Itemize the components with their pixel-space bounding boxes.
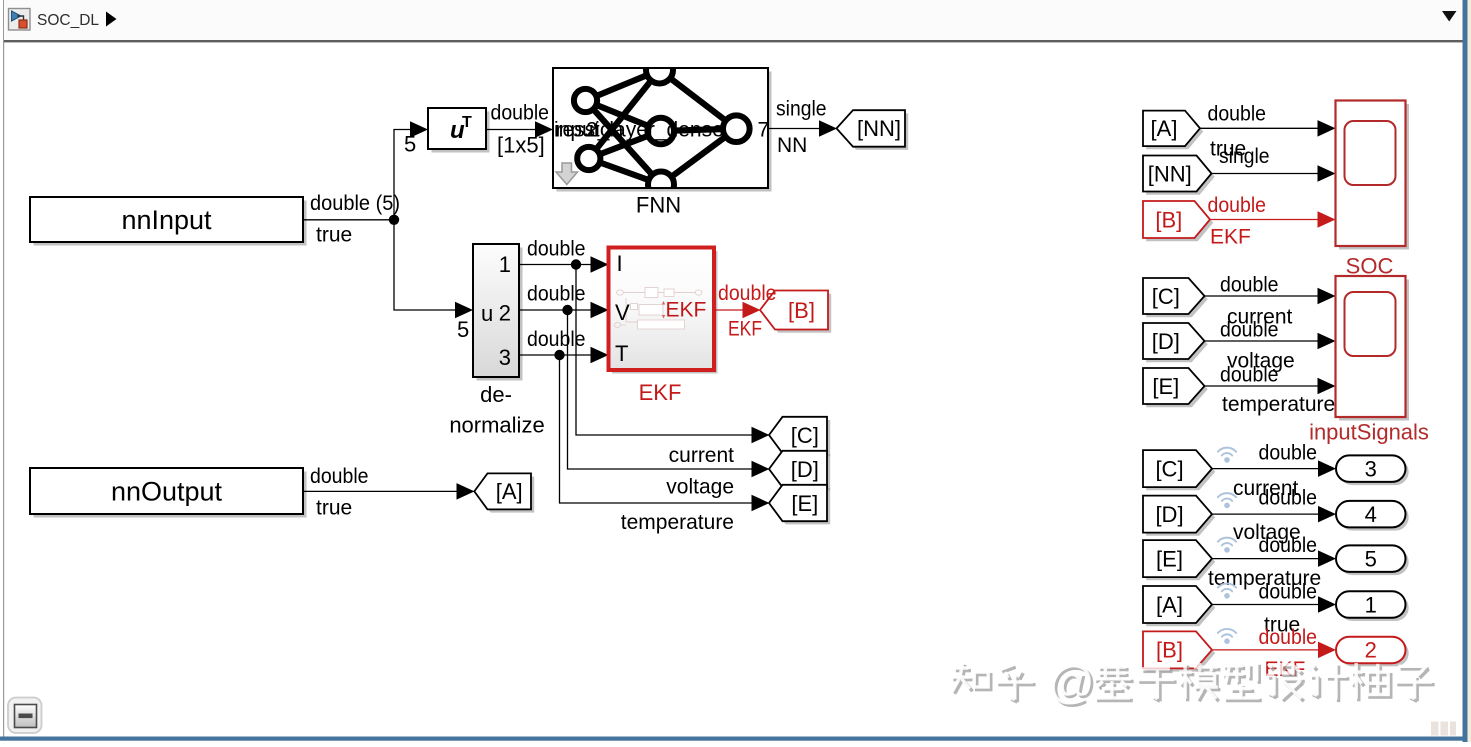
svg-text:1: 1 <box>499 252 511 277</box>
outport 4 (D) <box>1336 501 1409 531</box>
svg-text:nnInput: nnInput <box>121 205 212 235</box>
svg-text:SOC: SOC <box>1346 254 1394 279</box>
FNN model-reference down arrow badge <box>556 163 578 185</box>
FNN neural network graphic <box>574 57 750 198</box>
wireless signal icon E <box>1218 538 1236 553</box>
svg-text:[E]: [E] <box>791 491 818 516</box>
svg-text:double: double <box>1259 581 1318 604</box>
svg-text:double: double <box>527 283 586 306</box>
outport 2 (B) <box>1336 637 1409 667</box>
svg-text:[B]: [B] <box>1155 207 1182 232</box>
goto tag E <box>769 485 830 525</box>
outport 5 (E) <box>1336 545 1409 575</box>
from tag C->out3 <box>1143 450 1215 490</box>
svg-text:single: single <box>776 98 827 121</box>
svg-text:double: double <box>1259 487 1318 510</box>
scope inputSignals <box>1309 276 1429 445</box>
svg-text:true: true <box>316 497 352 520</box>
svg-text:[C]: [C] <box>1152 284 1180 309</box>
toolbar dropdown arrow <box>1442 11 1457 22</box>
wire [B] to outport 2 <box>1212 649 1320 651</box>
wire junction down to de-normalize <box>394 220 457 310</box>
zoom-out / collapse button bottom-left <box>8 698 42 734</box>
breadcrumb arrow <box>106 12 117 27</box>
svg-text:[B]: [B] <box>788 298 815 323</box>
block transpose uT <box>428 108 490 153</box>
goto tag NN <box>837 110 909 150</box>
status grip bottom-right <box>1431 722 1456 736</box>
svg-text:nnOutput: nnOutput <box>111 477 223 507</box>
svg-text:[A]: [A] <box>1151 116 1178 141</box>
svg-text:4: 4 <box>1365 502 1377 527</box>
svg-text:double: double <box>527 238 586 261</box>
svg-text:temperature: temperature <box>1222 393 1335 416</box>
breadcrumb toolbar <box>4 0 1463 40</box>
wire [D] to outport 4 <box>1212 513 1320 515</box>
junction node port 3 <box>554 350 564 360</box>
svg-text:@: @ <box>1048 656 1095 708</box>
wire branch port 1 to tag <box>576 265 754 436</box>
svg-text:2: 2 <box>499 301 511 326</box>
svg-text:inputSignals: inputSignals <box>1309 420 1429 445</box>
from tag D->out4 <box>1143 496 1215 536</box>
wire [A] to outport 1 <box>1212 604 1320 606</box>
window right border <box>1463 0 1468 742</box>
svg-text:2_layer_dense: 2_layer_dense <box>586 118 724 141</box>
svg-text:7: 7 <box>758 118 770 141</box>
wireless signal icon B <box>1218 629 1236 644</box>
svg-text:double (5): double (5) <box>310 192 400 215</box>
goto tag A <box>474 473 534 512</box>
svg-text:SOC_DL: SOC_DL <box>37 12 99 29</box>
svg-text:[A]: [A] <box>496 479 523 504</box>
svg-text:double: double <box>718 282 777 305</box>
watermark 知乎 @基于模型设计柚子 <box>951 656 1435 711</box>
svg-text:EKF: EKF <box>639 380 682 405</box>
wire [C] to inputSignals <box>1205 295 1320 297</box>
wire [E] to inputSignals <box>1205 385 1320 387</box>
from tag E->out5 <box>1143 540 1215 580</box>
simulink model badge icon <box>9 9 31 31</box>
from tag B->out2 <box>1143 631 1215 671</box>
junction node port 2 <box>562 305 572 315</box>
svg-text:[C]: [C] <box>791 423 819 448</box>
wire [C] to outport 3 <box>1212 468 1320 470</box>
wire de-normalize port 3 to EKF <box>519 354 593 356</box>
svg-text:EKF: EKF <box>728 318 762 341</box>
red wire [B] to SOC <box>1210 219 1319 221</box>
svg-text:I: I <box>617 251 623 276</box>
svg-text:1: 1 <box>1365 592 1377 617</box>
svg-text:de-: de- <box>480 382 512 407</box>
svg-text:voltage: voltage <box>666 476 734 499</box>
EKF inner content sketch <box>614 288 702 330</box>
junction node <box>389 215 399 225</box>
wireless signal icon C <box>1218 448 1236 463</box>
svg-text:[1x5]: [1x5] <box>497 133 545 158</box>
wireless signal icon A <box>1218 584 1236 599</box>
svg-text:FNN: FNN <box>636 193 681 218</box>
wire [NN] to SOC <box>1212 173 1320 175</box>
svg-text:V: V <box>615 300 630 325</box>
outport 3 (C) <box>1336 455 1409 485</box>
svg-text:2: 2 <box>1365 638 1377 663</box>
svg-text:double: double <box>1259 442 1318 465</box>
svg-text:temperature: temperature <box>621 511 734 534</box>
outport 1 (A) <box>1336 591 1409 621</box>
wire [D] to inputSignals <box>1205 340 1320 342</box>
svg-text:[C]: [C] <box>1155 456 1183 481</box>
svg-text:[D]: [D] <box>1155 502 1183 527</box>
wire de-normalize port 2 to EKF <box>519 309 593 311</box>
from tag D->scope <box>1143 323 1208 362</box>
svg-text:[A]: [A] <box>1156 592 1183 617</box>
svg-text:T: T <box>615 341 628 366</box>
wire [A] to SOC <box>1200 127 1319 129</box>
svg-text:[D]: [D] <box>1152 329 1180 354</box>
block de-normalize demux <box>473 244 523 381</box>
svg-text:double: double <box>310 465 369 488</box>
svg-text:[NN]: [NN] <box>857 116 901 141</box>
svg-text:5: 5 <box>1365 546 1377 571</box>
svg-text:true: true <box>316 224 352 247</box>
junction node port 1 <box>571 259 581 269</box>
window bottom border <box>0 737 1463 741</box>
from tag C->scope <box>1143 278 1208 317</box>
from tag A->out1 <box>1143 586 1215 626</box>
svg-text:EKF: EKF <box>666 299 707 322</box>
wire branch port 3 to tag <box>560 355 754 503</box>
from tag A->SOC <box>1143 111 1203 150</box>
wire branch port 2 to tag <box>568 310 754 469</box>
block nnOutput <box>30 468 307 518</box>
svg-text:[NN]: [NN] <box>1148 161 1192 186</box>
goto tag B <box>760 291 831 333</box>
svg-text:double: double <box>491 102 550 125</box>
block FNN <box>553 68 772 192</box>
svg-text:single: single <box>1219 145 1270 168</box>
svg-text:u: u <box>481 301 493 326</box>
svg-text:T: T <box>462 114 472 131</box>
svg-text:double: double <box>1208 103 1267 126</box>
wire [E] to outport 5 <box>1212 558 1320 560</box>
goto tag C <box>769 417 830 457</box>
scope SOC <box>1336 101 1410 279</box>
wire transpose to FNN <box>486 129 537 131</box>
goto tag D <box>769 451 830 491</box>
canvas left edge line <box>3 0 4 738</box>
from tag B->SOC <box>1143 201 1213 241</box>
svg-text:5: 5 <box>457 317 469 342</box>
wire nnOutput to [A] <box>303 490 459 492</box>
wire nnInput to junction <box>303 219 394 221</box>
svg-text:double: double <box>1259 626 1318 649</box>
svg-text:5: 5 <box>404 132 416 157</box>
svg-text:NN: NN <box>777 134 807 157</box>
svg-text:double: double <box>1220 274 1279 297</box>
svg-text:current: current <box>669 444 735 467</box>
block nnInput <box>30 197 307 246</box>
subsystem EKF <box>609 248 718 374</box>
svg-text:3: 3 <box>499 345 511 370</box>
svg-text:double: double <box>527 328 586 351</box>
svg-text:3: 3 <box>1365 457 1377 482</box>
from tag E->scope <box>1143 368 1208 407</box>
svg-text:[E]: [E] <box>1156 546 1183 571</box>
svg-text:double: double <box>1220 364 1279 387</box>
svg-text:double: double <box>1220 319 1279 342</box>
svg-text:double: double <box>1208 194 1267 217</box>
wire junction up to transpose <box>394 130 412 220</box>
from tag NN->SOC <box>1143 156 1215 195</box>
wireless signal icon D <box>1218 493 1236 508</box>
svg-text:[B]: [B] <box>1156 638 1183 663</box>
svg-text:[E]: [E] <box>1152 374 1179 399</box>
red wire EKF to [B] <box>714 309 745 311</box>
svg-text:normalize: normalize <box>449 413 544 438</box>
svg-text:[D]: [D] <box>791 457 819 482</box>
svg-text:EKF: EKF <box>1210 226 1251 249</box>
wire de-normalize port 1 to EKF <box>519 264 593 266</box>
wire FNN to [NN] <box>768 128 821 130</box>
svg-text:double: double <box>1259 534 1318 557</box>
